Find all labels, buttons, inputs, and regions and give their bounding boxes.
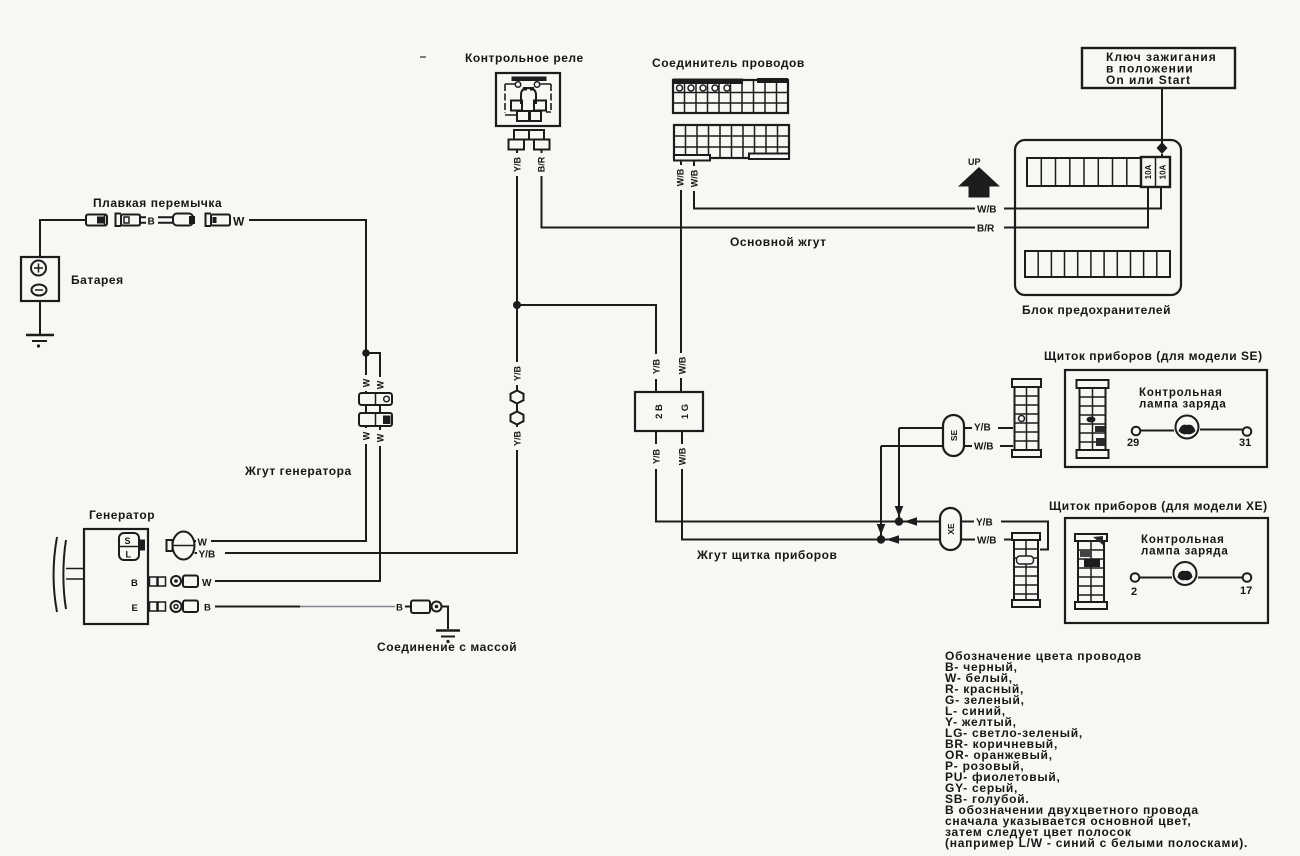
arrow left (W/B to junction) bbox=[886, 535, 899, 544]
XE panel-side grid connector bbox=[1075, 534, 1107, 609]
svg-text:Контрольное реле: Контрольное реле bbox=[465, 51, 584, 65]
generator GEN bbox=[54, 508, 156, 624]
svg-text:10A: 10A bbox=[1144, 164, 1153, 179]
svg-text:W/B: W/B bbox=[678, 356, 688, 374]
SE panel-side grid connector bbox=[1077, 380, 1109, 458]
wire Y/B: B2 to XE junction bbox=[656, 431, 940, 522]
svg-text:B/R: B/R bbox=[537, 156, 547, 172]
svg-text:Y/B: Y/B bbox=[513, 157, 523, 173]
wire W/B: G1 to XE junction bbox=[682, 431, 940, 540]
arrow left (Y/B to junction) bbox=[904, 517, 917, 526]
connector B2/G1 bbox=[635, 392, 703, 431]
label Y/B (below B2) bbox=[649, 444, 663, 469]
bullet connector Y/B (upper) bbox=[508, 390, 526, 404]
connector pair W/W (generator harness), labels W above bbox=[360, 375, 387, 393]
svg-text:2: 2 bbox=[1131, 586, 1137, 598]
connector S/L (oval) bbox=[167, 532, 195, 560]
svg-text:On или Start: On или Start bbox=[1106, 73, 1191, 87]
svg-text:SE: SE bbox=[949, 430, 959, 442]
svg-text:Y/B: Y/B bbox=[652, 359, 662, 375]
junction Y/B (XE/SE) bbox=[895, 517, 903, 525]
arrow down (Y/B branch) bbox=[895, 506, 904, 517]
fusible link connector 3 bbox=[173, 214, 195, 226]
svg-text:W/B: W/B bbox=[977, 536, 996, 547]
svg-text:Y/B: Y/B bbox=[513, 366, 523, 382]
svg-text:Блок предохранителей: Блок предохранителей bbox=[1022, 303, 1171, 317]
svg-text:W: W bbox=[376, 380, 386, 389]
svg-text:Y/B: Y/B bbox=[513, 431, 523, 447]
charge warning lamp (XE) bbox=[1140, 562, 1243, 585]
relay connector pins bbox=[509, 130, 550, 150]
label W/B (left pin) bbox=[674, 165, 687, 190]
svg-text:W: W bbox=[202, 578, 212, 589]
svg-text:Y/B: Y/B bbox=[976, 518, 993, 529]
svg-text:W: W bbox=[362, 378, 372, 387]
labels W below connector pair bbox=[360, 428, 387, 446]
label B/R (relay pin) bbox=[534, 153, 548, 176]
label W/B (XE) bbox=[975, 533, 1004, 547]
label W/B (below G1) bbox=[675, 444, 689, 469]
ground (battery) bbox=[26, 301, 54, 348]
wire Y/B: SE branch vertical bbox=[898, 428, 900, 522]
svg-text:Y/B: Y/B bbox=[652, 449, 662, 465]
wire B/R: relay to fuse box bbox=[542, 150, 1149, 228]
wire connector grid (lower) bbox=[674, 125, 789, 161]
S/L internal connector bbox=[119, 533, 139, 560]
junction W/B (XE/SE) bbox=[877, 535, 885, 543]
wire Y/B: SE oval to grid bbox=[964, 427, 1013, 429]
svg-text:10A: 10A bbox=[1159, 164, 1168, 179]
wire key to fuse box bbox=[1161, 88, 1163, 143]
connector SE (oval) bbox=[943, 415, 964, 456]
label W/B (right pin) bbox=[688, 166, 701, 191]
connector diamond (key wire) bbox=[1157, 142, 1168, 154]
fuse box bbox=[1015, 140, 1181, 295]
connector XE (oval) bbox=[940, 508, 961, 550]
svg-text:Генератор: Генератор bbox=[89, 508, 155, 522]
svg-text:2 B: 2 B bbox=[654, 404, 665, 419]
wire Y/B generator to relay bbox=[195, 149, 518, 553]
wire W/B: XE oval to grid bbox=[961, 539, 1013, 541]
terminal 29 (SE) bbox=[1132, 427, 1141, 436]
label Y/B (relay pin) bbox=[510, 153, 524, 176]
svg-text:Основной жгут: Основной жгут bbox=[730, 235, 827, 249]
wire W: fusible link to generator S/L (W pin) bbox=[194, 220, 366, 541]
wire B from E terminal to body ground bbox=[215, 606, 300, 608]
wire Y/B junction to B2 pin bbox=[517, 305, 656, 392]
junction W split bbox=[362, 349, 370, 357]
wire B label (E terminal) bbox=[202, 598, 214, 614]
wire to ground bbox=[442, 607, 449, 630]
svg-text:W: W bbox=[362, 431, 372, 440]
label B/R (near fuse box) bbox=[975, 221, 1004, 235]
junction Y/B node bbox=[513, 301, 521, 309]
svg-text:W/B: W/B bbox=[974, 442, 993, 453]
svg-text:1 G: 1 G bbox=[680, 404, 691, 419]
fuse 10A pair bbox=[1141, 157, 1170, 187]
svg-text:W/B: W/B bbox=[678, 447, 688, 465]
wire connector grid (upper) bbox=[673, 78, 788, 113]
generator B terminal bbox=[131, 576, 215, 590]
svg-text:Батарея: Батарея bbox=[71, 273, 124, 287]
label W/B (near fuse box) bbox=[975, 202, 1004, 216]
svg-text:S: S bbox=[125, 536, 131, 546]
svg-text:W: W bbox=[198, 538, 208, 549]
UP arrow bbox=[958, 157, 1000, 198]
generator E terminal bbox=[132, 601, 199, 615]
arrow down (W/B branch) bbox=[877, 524, 886, 535]
svg-text:Жгут генератора: Жгут генератора bbox=[244, 464, 352, 478]
label Y/B (SE) bbox=[972, 421, 998, 434]
terminal 31 (SE) bbox=[1243, 427, 1252, 436]
svg-text:B: B bbox=[148, 217, 155, 228]
svg-text:Соединение с массой: Соединение с массой bbox=[377, 640, 517, 654]
svg-text:(например L/W - синий с белыми: (например L/W - синий с белыми полосками… bbox=[945, 836, 1248, 850]
label W/B (above G1) bbox=[675, 353, 689, 378]
wire Y/B label (L pin) bbox=[197, 547, 225, 561]
svg-text:W/B: W/B bbox=[690, 169, 700, 187]
fusible link wire B (double line) bbox=[140, 212, 173, 228]
svg-text:L: L bbox=[126, 550, 132, 560]
pulley bbox=[54, 537, 57, 612]
wire W/B: connector to fuse box bbox=[694, 161, 1161, 209]
stray scan mark bbox=[420, 56, 426, 58]
wire W/B: connector to G1 pin bbox=[680, 161, 682, 393]
fuse row (upper) bbox=[1027, 158, 1141, 186]
connector block (lower half) bbox=[359, 413, 392, 426]
ground connector bbox=[405, 601, 442, 614]
svg-text:B/R: B/R bbox=[977, 224, 995, 235]
instrument panel XE box bbox=[1065, 518, 1268, 623]
svg-text:17: 17 bbox=[1240, 585, 1252, 597]
svg-text:W/B: W/B bbox=[676, 168, 686, 186]
svg-text:31: 31 bbox=[1239, 437, 1251, 449]
color legend bbox=[945, 649, 1248, 850]
charge warning lamp (SE) bbox=[1141, 416, 1243, 439]
ground (body) bbox=[436, 631, 460, 644]
wire W/B: SE oval to grid bbox=[964, 445, 1013, 447]
wire battery positive to fusible link bbox=[40, 220, 86, 257]
svg-text:W/B: W/B bbox=[977, 205, 996, 216]
wire Y/B: XE oval to grid (hook) bbox=[961, 522, 1048, 550]
svg-text:Y/B: Y/B bbox=[199, 550, 216, 561]
svg-text:Плавкая перемычка: Плавкая перемычка bbox=[93, 196, 222, 210]
svg-text:лампа заряда: лампа заряда bbox=[1141, 546, 1229, 558]
svg-text:B: B bbox=[204, 603, 211, 614]
fusible link connector 1 bbox=[86, 215, 107, 226]
wire W branch to generator B terminal bbox=[215, 353, 380, 581]
svg-text:лампа заряда: лампа заряда bbox=[1139, 399, 1227, 411]
label W/B (SE) bbox=[972, 440, 1000, 453]
control relay bbox=[496, 73, 560, 126]
terminal 17 (XE) bbox=[1243, 573, 1252, 582]
svg-text:E: E bbox=[132, 603, 138, 614]
bullet connector Y/B (lower) bbox=[508, 411, 526, 425]
svg-text:Y/B: Y/B bbox=[974, 423, 991, 434]
svg-text:XE: XE bbox=[946, 523, 956, 535]
fusible link connector 4 bbox=[206, 214, 231, 227]
SE harness-side grid connector bbox=[1012, 379, 1041, 457]
svg-text:Щиток приборов (для модели SE): Щиток приборов (для модели SE) bbox=[1044, 349, 1263, 363]
svg-text:29: 29 bbox=[1127, 437, 1139, 449]
svg-text:Контрольная: Контрольная bbox=[1139, 387, 1223, 399]
fusible link connector 2 bbox=[116, 214, 141, 227]
svg-text:Контрольная: Контрольная bbox=[1141, 534, 1225, 546]
label Y/B (below bullet connectors) bbox=[510, 427, 524, 450]
label Y/B (above bullet connectors) bbox=[510, 362, 524, 385]
svg-text:Щиток приборов (для модели XE): Щиток приборов (для модели XE) bbox=[1049, 499, 1268, 513]
label Y/B (XE) bbox=[974, 515, 1001, 529]
XE harness-side grid connector bbox=[1012, 533, 1040, 607]
label Y/B (above B2) bbox=[649, 354, 663, 379]
terminal 2 (XE) bbox=[1131, 573, 1140, 582]
wire Y/B: SE oval left bbox=[899, 427, 943, 429]
svg-text:W: W bbox=[376, 433, 386, 442]
fuse row (lower) bbox=[1025, 251, 1170, 277]
wire W/B: SE oval left bbox=[881, 445, 943, 447]
connector block (upper half) bbox=[359, 393, 392, 405]
svg-text:B: B bbox=[396, 603, 403, 614]
svg-text:W: W bbox=[233, 215, 245, 229]
battery BAT bbox=[21, 257, 124, 301]
svg-text:Жгут щитка приборов: Жгут щитка приборов bbox=[696, 548, 837, 562]
svg-text:Соединитель проводов: Соединитель проводов bbox=[652, 56, 805, 70]
instrument panel SE box bbox=[1065, 370, 1267, 467]
svg-text:UP: UP bbox=[968, 157, 981, 167]
svg-text:B: B bbox=[131, 578, 138, 589]
wire W label (S pin) bbox=[196, 534, 211, 549]
ignition key box bbox=[1082, 48, 1235, 88]
wire W/B: SE branch vertical bbox=[880, 446, 882, 540]
